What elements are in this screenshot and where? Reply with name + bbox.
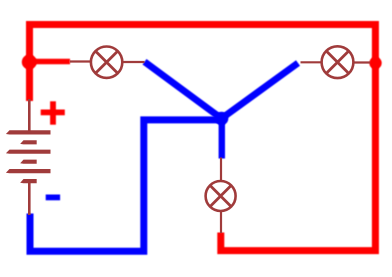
wire main red loop: battery + to top, across top, down right side, along bottom right to lamp L3: [30, 25, 376, 251]
wire red stub from node to lamp L1: [29, 59, 70, 65]
lamp L2: [301, 46, 371, 78]
node junction dot left: [22, 55, 37, 70]
lamp L1: [70, 47, 145, 78]
node N junction dot (blue): [215, 112, 229, 126]
wire blue from node N down to lamp L3: [219, 119, 225, 159]
wire blue return: battery - down, along bottom, up, right to node N: [30, 120, 219, 251]
wire blue diagonal from lamp L2 to node N: [222, 63, 299, 119]
- label (battery negative): [46, 195, 60, 201]
+ label (battery positive): [41, 101, 65, 124]
node junction dot right: [369, 57, 381, 69]
lamp L3: [206, 158, 236, 234]
battery B1: [6, 99, 51, 215]
wire blue diagonal from lamp L1 to node N: [145, 62, 222, 119]
